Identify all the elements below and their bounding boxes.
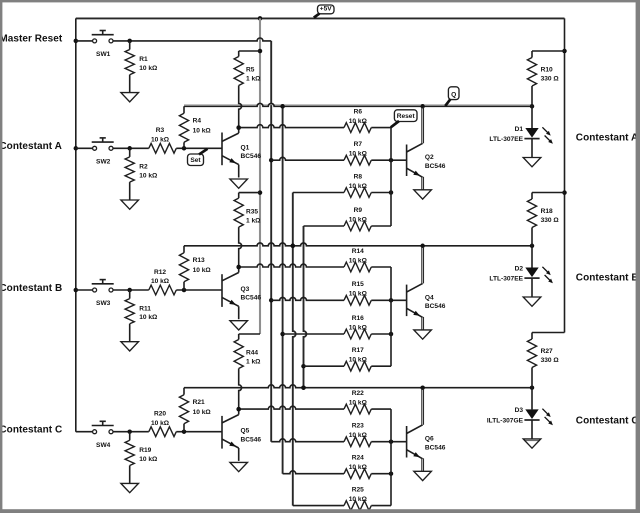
transistor Q4 BC546 xyxy=(407,247,446,330)
resistor R4 10 k (feedback) xyxy=(179,106,211,148)
svg-text:Q3: Q3 xyxy=(241,286,250,293)
switch SW1 xyxy=(92,31,114,59)
svg-text:330 Ω: 330 Ω xyxy=(541,357,560,364)
svg-text:R12: R12 xyxy=(154,269,166,276)
svg-text:10 kΩ: 10 kΩ xyxy=(151,278,170,285)
wire: Q4 base bus (x=391) xyxy=(390,267,392,366)
svg-text:R2: R2 xyxy=(139,164,148,171)
resistor R3 10 k xyxy=(149,127,177,153)
svg-text:10 kΩ: 10 kΩ xyxy=(151,420,170,427)
svg-text:10 kΩ: 10 kΩ xyxy=(139,173,158,180)
svg-text:Q6: Q6 xyxy=(425,436,434,443)
svg-text:R14: R14 xyxy=(352,248,364,255)
wire: gray bus to 1k collector resistors (x=260) xyxy=(258,18,263,334)
svg-text:10 kΩ: 10 kΩ xyxy=(349,324,368,331)
resistor R5 1 k (collector load) xyxy=(234,51,261,128)
svg-text:10 kΩ: 10 kΩ xyxy=(151,136,170,143)
resistor R8 10 k xyxy=(293,173,393,197)
resistor R19 10 k xyxy=(125,432,158,484)
svg-text:Contestant A: Contestant A xyxy=(576,133,638,144)
svg-text:R17: R17 xyxy=(352,347,364,354)
svg-text:R44: R44 xyxy=(246,350,258,357)
wire: contestant B output bus (x=293) xyxy=(291,193,296,506)
resistor R9 10 k xyxy=(304,207,392,231)
net label Contestant B (right) xyxy=(576,273,639,284)
transistor Q3 BC546 xyxy=(222,265,261,319)
resistor R10 330 xyxy=(527,51,564,106)
resistor R1 10 k xyxy=(125,41,158,93)
net label Contestant B (left) xyxy=(0,283,62,294)
svg-text:BC546: BC546 xyxy=(241,436,262,443)
svg-text:D1: D1 xyxy=(515,126,524,133)
ground (Q4 emitter) xyxy=(414,330,432,339)
wire: contestant B input row xyxy=(76,288,222,293)
resistor R21 10 k (feedback) xyxy=(179,388,211,432)
svg-text:10 kΩ: 10 kΩ xyxy=(349,257,368,264)
wire: left +5V supply bus (to switches) xyxy=(74,18,79,431)
svg-text:R13: R13 xyxy=(193,257,205,264)
ground (R11) xyxy=(121,342,139,351)
svg-text:330 Ω: 330 Ω xyxy=(541,217,560,224)
resistor R24 10 k xyxy=(283,455,394,479)
svg-text:R7: R7 xyxy=(354,141,363,148)
ground (Q5 emitter) xyxy=(230,462,248,471)
transistor Q6 BC546 xyxy=(407,389,446,472)
ground (D1) xyxy=(523,158,541,167)
ground (R19) xyxy=(121,483,139,492)
net label Set xyxy=(188,149,208,166)
resistor R12 10 k xyxy=(149,269,177,295)
svg-text:BC546: BC546 xyxy=(425,163,446,170)
ground (Q3 emitter) xyxy=(230,321,248,330)
svg-text:1 kΩ: 1 kΩ xyxy=(246,217,261,224)
transistor Q2 BC546 xyxy=(407,107,446,190)
svg-text:R15: R15 xyxy=(352,281,364,288)
net label Contestant C (left) xyxy=(0,425,62,436)
svg-text:Q5: Q5 xyxy=(241,428,250,435)
svg-text:R8: R8 xyxy=(354,173,363,180)
resistor R15 10 k xyxy=(271,281,406,305)
wire: contestant A input row xyxy=(76,146,222,151)
svg-text:BC546: BC546 xyxy=(425,444,446,451)
resistor R44 1 k (collector load) xyxy=(234,334,261,409)
svg-text:BC546: BC546 xyxy=(241,295,262,302)
svg-text:10 kΩ: 10 kΩ xyxy=(139,456,158,463)
LED D3 ILTL-307GE xyxy=(487,388,553,439)
net label Master Reset xyxy=(0,34,63,45)
svg-text:10 kΩ: 10 kΩ xyxy=(349,496,368,503)
resistor R13 10 k (feedback) xyxy=(179,246,211,290)
resistor R2 10 k xyxy=(125,148,158,200)
svg-text:10 kΩ: 10 kΩ xyxy=(139,314,158,321)
svg-text:ILTL-307GE: ILTL-307GE xyxy=(487,417,524,424)
resistor R27 330 xyxy=(527,333,564,388)
svg-text:R16: R16 xyxy=(352,315,364,322)
switch SW4 xyxy=(92,421,114,449)
ground (Q2 emitter) xyxy=(414,190,432,199)
LED D1 LTL-307EE xyxy=(489,106,552,157)
svg-text:10 kΩ: 10 kΩ xyxy=(349,183,368,190)
wire: master reset bus (x=271) xyxy=(269,41,274,442)
net label Contestant A (left) xyxy=(0,141,62,152)
wire: contestant C input row xyxy=(76,429,222,434)
resistor R11 10 k xyxy=(125,290,158,342)
svg-text:SW1: SW1 xyxy=(96,51,111,58)
svg-text:R10: R10 xyxy=(541,67,553,74)
svg-text:10 kΩ: 10 kΩ xyxy=(193,267,212,274)
svg-text:10 kΩ: 10 kΩ xyxy=(349,432,368,439)
svg-text:Q: Q xyxy=(451,91,456,98)
svg-text:10 kΩ: 10 kΩ xyxy=(349,118,368,125)
svg-text:Q1: Q1 xyxy=(241,144,250,151)
svg-text:Contestant A: Contestant A xyxy=(0,141,62,152)
svg-text:10 kΩ: 10 kΩ xyxy=(349,151,368,158)
svg-text:Master Reset: Master Reset xyxy=(0,34,63,45)
svg-text:D3: D3 xyxy=(515,407,524,414)
svg-text:R20: R20 xyxy=(154,411,166,418)
svg-text:R5: R5 xyxy=(246,67,255,74)
svg-text:Q2: Q2 xyxy=(425,154,434,161)
svg-text:10 kΩ: 10 kΩ xyxy=(349,357,368,364)
power label +5V xyxy=(314,5,334,18)
svg-text:Set: Set xyxy=(190,157,201,164)
ground (Q1 emitter) xyxy=(230,179,248,188)
net label Contestant A (right) xyxy=(576,133,638,144)
resistor R20 10 k xyxy=(149,411,177,437)
svg-text:R27: R27 xyxy=(541,348,553,355)
svg-text:Contestant B: Contestant B xyxy=(0,283,62,294)
resistor R7 10 k xyxy=(271,141,406,165)
resistor R35 1 k (collector load) xyxy=(234,193,261,267)
resistor R23 10 k xyxy=(271,423,406,447)
wire: contestant C output bus (x=303) xyxy=(301,226,306,390)
svg-text:SW4: SW4 xyxy=(96,442,111,449)
svg-text:Reset: Reset xyxy=(397,113,416,120)
resistor R6 10 k xyxy=(236,109,391,133)
svg-text:SW2: SW2 xyxy=(96,158,111,165)
wire: Q6 base bus (x=391) xyxy=(390,409,392,506)
resistor R22 10 k xyxy=(236,390,391,414)
svg-text:R21: R21 xyxy=(193,399,205,406)
net label Reset xyxy=(391,110,417,128)
resistor R17 10 k xyxy=(304,347,392,371)
svg-text:D2: D2 xyxy=(515,265,524,272)
svg-text:SW3: SW3 xyxy=(96,300,111,307)
svg-text:R23: R23 xyxy=(352,423,364,430)
svg-text:10 kΩ: 10 kΩ xyxy=(349,216,368,223)
svg-text:R6: R6 xyxy=(354,109,363,116)
switch SW2 xyxy=(92,138,114,166)
svg-text:10 kΩ: 10 kΩ xyxy=(349,464,368,471)
resistor R18 330 xyxy=(527,193,564,246)
transistor Q1 BC546 xyxy=(222,125,261,177)
ground (D2) xyxy=(523,297,541,306)
svg-text:BC546: BC546 xyxy=(241,153,262,160)
resistor R16 10 k xyxy=(283,315,394,339)
svg-text:R1: R1 xyxy=(139,56,148,63)
svg-text:10 kΩ: 10 kΩ xyxy=(349,400,368,407)
resistor R14 10 k xyxy=(236,248,391,272)
wire: Q output net contestant B xyxy=(184,243,534,248)
svg-text:10 kΩ: 10 kΩ xyxy=(139,65,158,72)
net label Q xyxy=(445,87,459,106)
svg-text:10 kΩ: 10 kΩ xyxy=(193,409,212,416)
svg-text:1 kΩ: 1 kΩ xyxy=(246,359,261,366)
ground (R2) xyxy=(121,200,139,209)
ground (R1) xyxy=(121,93,139,102)
svg-text:R19: R19 xyxy=(139,447,151,454)
svg-text:1 kΩ: 1 kΩ xyxy=(246,76,261,83)
svg-text:LTL-307EE: LTL-307EE xyxy=(489,136,523,143)
resistor R25 10 k xyxy=(293,487,391,511)
LED D2 LTL-307EE xyxy=(489,246,552,297)
net label Contestant C (right) xyxy=(576,416,639,427)
svg-text:Contestant C: Contestant C xyxy=(0,425,62,436)
svg-text:R18: R18 xyxy=(541,208,553,215)
wire: master reset row xyxy=(76,38,271,43)
svg-text:10 kΩ: 10 kΩ xyxy=(349,291,368,298)
wire: Q2 base bus (x=391) xyxy=(390,128,392,226)
svg-text:Contestant C: Contestant C xyxy=(576,416,639,427)
transistor Q5 BC546 xyxy=(222,407,261,461)
ground (D3) xyxy=(523,439,541,448)
ground (Q6 emitter) xyxy=(414,471,432,480)
svg-text:BC546: BC546 xyxy=(425,303,446,310)
svg-text:R25: R25 xyxy=(352,487,364,494)
svg-text:R11: R11 xyxy=(139,305,151,312)
svg-text:R4: R4 xyxy=(193,118,202,125)
svg-text:R22: R22 xyxy=(352,390,364,397)
svg-text:R9: R9 xyxy=(354,207,363,214)
svg-text:LTL-307EE: LTL-307EE xyxy=(489,275,523,282)
svg-text:Contestant B: Contestant B xyxy=(576,273,639,284)
svg-text:330 Ω: 330 Ω xyxy=(541,76,560,83)
wire: +5V top rail xyxy=(76,16,565,21)
svg-text:R3: R3 xyxy=(156,127,165,134)
svg-text:Q4: Q4 xyxy=(425,294,434,301)
wire: contestant A output bus (x=283) xyxy=(280,104,285,474)
svg-text:10 kΩ: 10 kΩ xyxy=(193,128,212,135)
wire: Q output net contestant A xyxy=(184,103,534,108)
svg-text:R24: R24 xyxy=(352,455,364,462)
svg-text:+5V: +5V xyxy=(320,6,333,13)
svg-text:R35: R35 xyxy=(246,208,258,215)
wire: right +5V bus (to LED resistors) xyxy=(562,18,567,332)
wire: Q output net contestant C xyxy=(184,385,534,390)
switch SW3 xyxy=(92,280,114,308)
